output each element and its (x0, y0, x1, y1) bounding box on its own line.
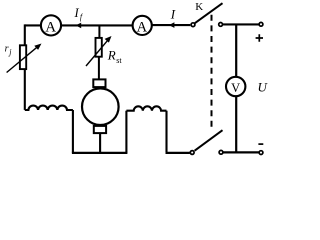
svg-text:R: R (107, 47, 116, 62)
svg-text:r: r (5, 44, 9, 55)
current arrow I (169, 22, 175, 28)
wire L2 down (165, 111, 167, 152)
wire A2 to switch contact (152, 24, 190, 26)
switch K bottom blade (195, 130, 223, 151)
Rst adjustment arrow (86, 41, 108, 66)
switch K mechanical link (dashed) (211, 15, 213, 127)
wire bottom-right (223, 151, 258, 153)
svg-text:I: I (74, 6, 80, 20)
label minus (258, 143, 263, 145)
ammeter A1 (41, 15, 61, 35)
wire Rst to motor brush (98, 57, 100, 80)
svg-text:f: f (80, 12, 84, 21)
current arrow If (76, 23, 82, 29)
voltmeter U1 (226, 77, 245, 96)
wire top-left horizontal (25, 24, 41, 26)
wire top-right (223, 23, 259, 25)
switch K top contact left (191, 23, 195, 27)
terminal + (259, 22, 263, 26)
switch K top contact right (219, 23, 223, 27)
ammeter A2 (133, 16, 152, 36)
resistor rj (20, 45, 26, 69)
wire V top (235, 25, 237, 76)
wire right coil rise (125, 111, 127, 153)
wire V bottom (235, 97, 237, 153)
svg-text:st: st (116, 56, 122, 65)
motor M armature (82, 88, 119, 125)
switch K top blade (195, 3, 223, 23)
svg-text:K: K (195, 1, 203, 13)
svg-text:j: j (8, 47, 12, 56)
wire bottom rail under motor (72, 152, 128, 154)
switch K bottom contact left (190, 151, 194, 155)
svg-text:A: A (137, 19, 148, 35)
switch K bottom contact right (219, 150, 223, 154)
rheostat Rst (96, 38, 102, 57)
inductor L1 (left field coil) (25, 106, 73, 110)
svg-text:A: A (45, 20, 56, 36)
wire left branch vertical lower (24, 69, 26, 110)
rheostat Rst stub (98, 25, 100, 37)
wire A1 to A2 (62, 24, 133, 26)
label plus (256, 34, 263, 41)
svg-text:U: U (258, 79, 269, 94)
terminal - (259, 151, 263, 155)
wire L1 down (72, 110, 74, 153)
rj adjustment arrow (7, 47, 38, 73)
wire motor to bottom rail (99, 134, 101, 153)
motor M bottom brush (94, 126, 106, 133)
svg-text:I: I (170, 7, 176, 22)
svg-text:V: V (231, 81, 240, 95)
inductor L2 (right field coil) (126, 106, 166, 110)
wire left branch vertical upper (24, 24, 26, 45)
motor M top brush (93, 79, 105, 87)
wire L2 to switch contact (166, 152, 190, 154)
